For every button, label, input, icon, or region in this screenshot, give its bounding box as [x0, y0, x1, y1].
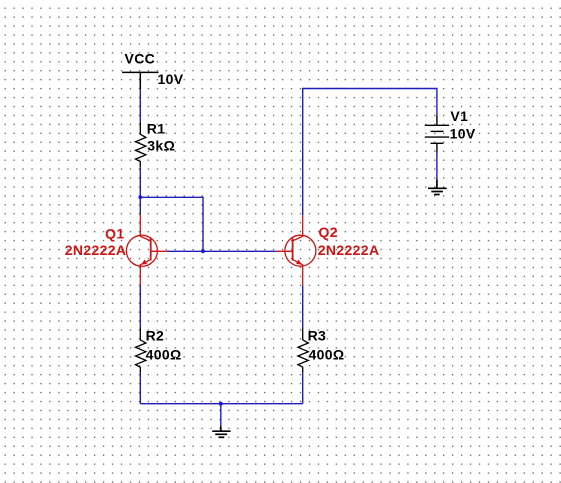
svg-text:2N2222A: 2N2222A [65, 242, 127, 258]
svg-text:3kΩ: 3kΩ [147, 137, 175, 153]
wire Q1 emitter to R2 [139, 285, 141, 327]
svg-text:400Ω: 400Ω [309, 347, 345, 363]
ground (right, below V1) [428, 179, 447, 194]
transistor Q2 [276, 215, 316, 285]
svg-text:2N2222A: 2N2222A [318, 242, 380, 258]
wire Q1 base to Q2 base [167, 250, 276, 252]
wire node C to ground [220, 404, 222, 427]
battery V1 [425, 115, 449, 152]
svg-text:R2: R2 [146, 328, 165, 344]
resistor R1 [136, 122, 146, 167]
wire V1 to ground [436, 153, 438, 180]
svg-text:10V: 10V [158, 71, 184, 87]
svg-text:VCC: VCC [125, 51, 156, 67]
wire R3 to bottom rail [302, 373, 304, 404]
svg-text:R3: R3 [308, 328, 327, 344]
wire Q2 emitter to R3 [302, 285, 304, 327]
svg-text:Q1: Q1 [105, 226, 124, 242]
power symbol VCC [122, 72, 158, 89]
svg-text:10V: 10V [450, 126, 476, 142]
node C junction (ground tap) [219, 402, 223, 406]
node A junction [138, 195, 142, 199]
svg-text:400Ω: 400Ω [146, 347, 182, 363]
wire VCC to R1 [139, 89, 141, 122]
svg-text:Q2: Q2 [319, 224, 338, 240]
node B junction [201, 249, 205, 253]
wire R1 to node A / Q1 collector [139, 167, 141, 215]
svg-text:V1: V1 [450, 108, 468, 124]
resistor R2 [136, 327, 146, 373]
svg-text:R1: R1 [147, 121, 166, 137]
resistor R3 [298, 327, 308, 372]
wire node A to node B [140, 197, 203, 251]
wire R2 to bottom rail [139, 373, 141, 404]
transistor Q1 [126, 215, 166, 285]
wire Q2 collector to V1 [303, 89, 437, 216]
bottom rail wire [140, 403, 302, 405]
ground (bottom middle) [212, 426, 230, 437]
